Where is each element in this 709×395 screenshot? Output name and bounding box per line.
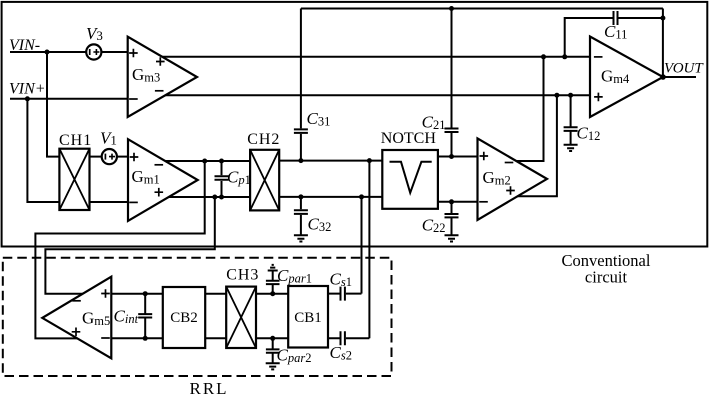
- svg-text:C32: C32: [308, 214, 332, 234]
- wire CH3 to CB1 upper: [256, 293, 288, 295]
- wire lower node down to Cs1: [361, 197, 363, 294]
- node top rail to C21 junction: [449, 6, 454, 11]
- wire CH3 to CB1 lower: [256, 337, 288, 339]
- node VIN- junction: [45, 50, 50, 55]
- wire Gm4 output VOUT: [663, 76, 696, 78]
- wire Gm1 - output to CH2 upper input: [165, 160, 250, 162]
- wire Gm2 - output up to Gm4 - input line: [516, 57, 543, 161]
- op-amp Gm2: [478, 138, 548, 220]
- op-amp Gm3: [128, 37, 197, 117]
- svg-text:NOTCH: NOTCH: [381, 130, 437, 147]
- capacitor Cpar1: [266, 271, 280, 294]
- svg-text:VOUT: VOUT: [664, 60, 704, 76]
- capacitor C12: [564, 95, 578, 145]
- svg-text:C11: C11: [604, 22, 627, 42]
- ground below C32: [294, 235, 308, 241]
- node Cpar2 junction: [270, 336, 275, 341]
- wire VIN- input to V3: [10, 51, 86, 53]
- capacitor Cp1: [215, 161, 229, 197]
- outer box: conventional circuit boundary: [2, 2, 708, 247]
- node C11 left junction: [562, 54, 567, 59]
- capacitor C11: [565, 11, 663, 57]
- node C11 right junction: [660, 16, 665, 21]
- svg-text:V3: V3: [86, 24, 103, 43]
- capacitor C32: [294, 197, 308, 235]
- svg-text:C22: C22: [422, 215, 446, 235]
- wire VIN+ junction to CH1 lower input: [27, 99, 59, 202]
- node Cint upper junction: [143, 291, 148, 296]
- svg-text:C31: C31: [307, 109, 331, 129]
- svg-text:C21: C21: [422, 112, 446, 132]
- svg-text:CB1: CB1: [294, 310, 322, 326]
- chopper CH2: [250, 150, 279, 211]
- node Gm2 - output junction: [541, 54, 546, 59]
- node Cint lower junction: [143, 336, 148, 341]
- node VOUT junction: [660, 74, 666, 80]
- wire CB2 to CH3 lower: [205, 337, 226, 339]
- wire Gm5 - input to CB2 lower: [111, 337, 163, 339]
- svg-text:Cs1: Cs1: [330, 269, 352, 289]
- svg-text:CH3: CH3: [226, 267, 259, 284]
- wire Gm5 + input to CB2 upper: [111, 293, 163, 295]
- svg-text:CH1: CH1: [59, 132, 92, 149]
- node Cpar1 junction: [270, 291, 275, 296]
- op-amp Gm4: [590, 37, 663, 118]
- voltage source V1: [102, 149, 117, 164]
- svg-text:Cint: Cint: [114, 307, 139, 327]
- wire feedback Gm1 lower node to Gm5 - output: [45, 197, 214, 294]
- node Gm1 lower output junction: [212, 195, 217, 200]
- wire V3 to Gm3 + input: [101, 51, 127, 53]
- wire VIN- junction to CH1 upper input: [47, 52, 59, 157]
- wire VIN+ input to Gm3 - input: [10, 98, 128, 100]
- wire top rail down to VOUT node: [662, 9, 664, 78]
- svg-text:CB2: CB2: [170, 310, 198, 326]
- node Cs1 branch junction: [359, 194, 364, 199]
- wire upper node down to Cs2: [368, 161, 370, 339]
- capacitor Cpar2: [266, 338, 280, 363]
- node Cp1 lower junction: [219, 195, 224, 200]
- svg-text:CH2: CH2: [247, 131, 280, 148]
- wire NOTCH upper output to Gm2 + input: [438, 156, 478, 158]
- ground below C12: [564, 145, 578, 151]
- wire Gm1 + output to CH2 lower input: [169, 196, 250, 198]
- svg-text:V1: V1: [100, 128, 117, 147]
- node Gm1 upper output junction: [202, 159, 207, 164]
- capacitor C22: [445, 202, 459, 236]
- node Cs2 branch junction: [367, 158, 372, 163]
- wire CB2 to CH3 upper: [205, 293, 226, 295]
- wire CH2 upper output to NOTCH upper input: [279, 160, 382, 162]
- capacitor C21: [445, 9, 459, 157]
- block CB1: [288, 286, 328, 348]
- op-amp Gm1: [128, 139, 198, 221]
- ground below Cpar2: [266, 363, 280, 369]
- svg-text:C12: C12: [577, 124, 601, 144]
- wire CH2 lower output to NOTCH lower input: [279, 196, 382, 198]
- node C32 junction: [298, 194, 303, 199]
- RRL dashed boundary: [3, 258, 392, 376]
- node C21 lower junction: [449, 154, 454, 159]
- node C31 junction: [298, 158, 303, 163]
- ground below C22: [445, 235, 459, 241]
- wire NOTCH lower output to Gm2 - input: [438, 201, 478, 203]
- svg-text:Cp1: Cp1: [227, 168, 251, 188]
- ground above Cpar1: [268, 265, 278, 271]
- voltage source V3: [86, 44, 101, 59]
- svg-text:RRL: RRL: [190, 379, 229, 395]
- chopper CH1: [59, 149, 89, 210]
- svg-text:Cs2: Cs2: [330, 343, 352, 363]
- node C12 junction: [568, 93, 573, 98]
- svg-text:VIN+: VIN+: [9, 81, 46, 98]
- node Gm2 + output junction: [554, 93, 559, 98]
- capacitor C31: [294, 9, 308, 161]
- op-amp Gm5: [42, 277, 111, 359]
- capacitor Cs1: [328, 287, 362, 301]
- wire CH1 upper output to V1: [90, 156, 102, 158]
- node Cp1 upper junction: [219, 159, 224, 164]
- notch filter NOTCH: [382, 150, 438, 209]
- chopper CH3: [226, 287, 256, 348]
- wire Gm3 - output to Gm4 + input: [166, 94, 591, 96]
- node VIN+ junction: [25, 96, 30, 101]
- node C22 junction: [449, 199, 454, 204]
- wire Gm3 + output to Gm4 - input: [162, 56, 590, 58]
- capacitor Cs2: [328, 331, 369, 345]
- svg-text:Cpar1: Cpar1: [277, 266, 312, 286]
- wire CH1 lower output to Gm1 - input: [90, 201, 129, 203]
- capacitor Cint: [138, 294, 152, 339]
- wire V1 to Gm1 + input: [117, 156, 128, 158]
- wire Gm2 + output up to Gm4 + input line: [518, 95, 557, 196]
- svg-text:circuit: circuit: [585, 268, 628, 287]
- wire feedback Gm1 upper node to Gm5 + output: [35, 161, 204, 338]
- block CB2: [163, 287, 205, 348]
- wire VOUT feedback top rail: [301, 8, 663, 10]
